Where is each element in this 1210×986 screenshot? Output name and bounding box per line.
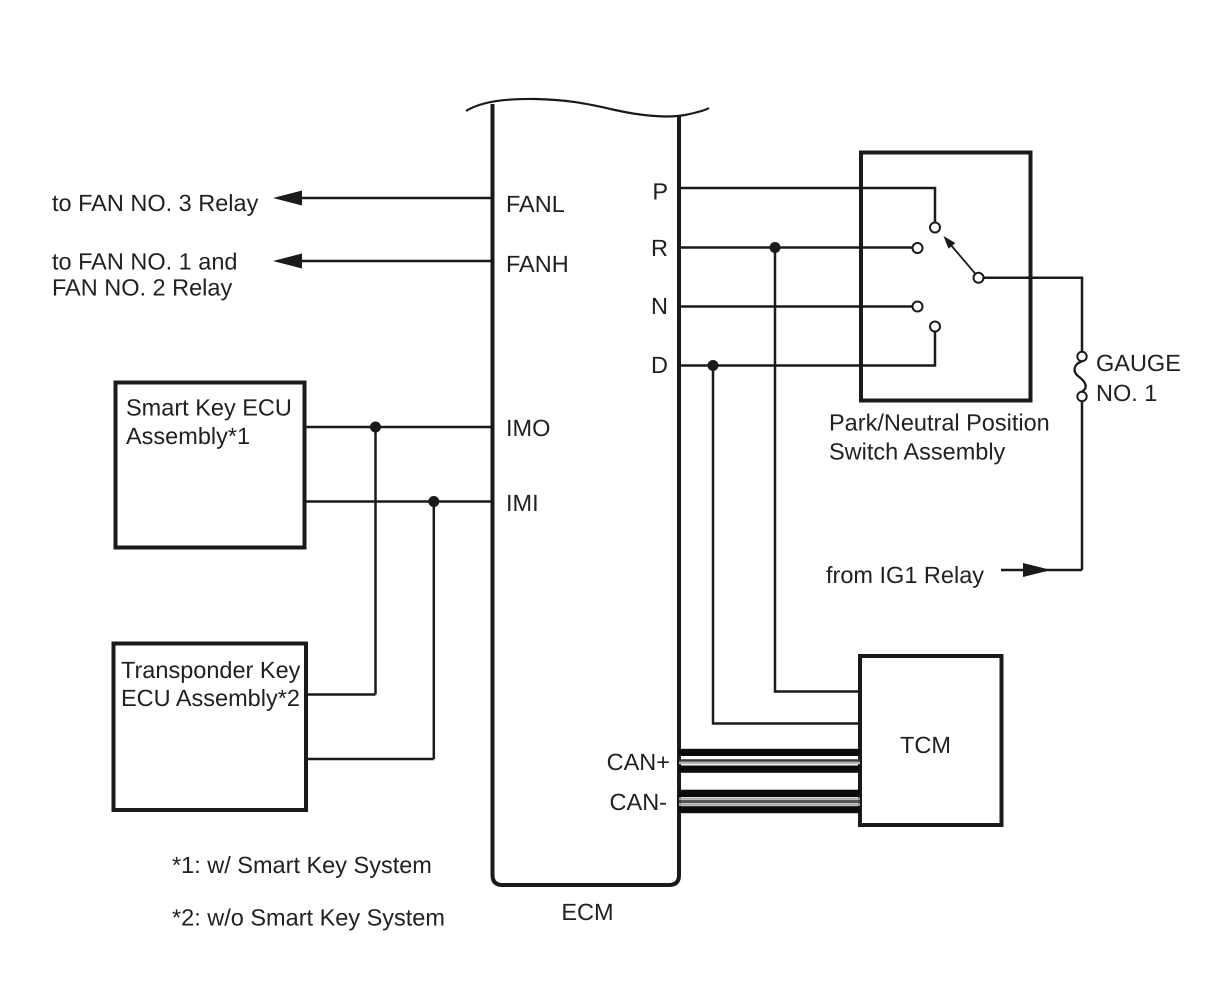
wire IMO branch vertical bbox=[374, 427, 377, 695]
wire R bbox=[679, 246, 912, 249]
svg-text:from IG1 Relay: from IG1 Relay bbox=[826, 562, 984, 588]
svg-text:Park/Neutral Position: Park/Neutral Position bbox=[829, 410, 1050, 436]
fuse GAUGE NO.1 bottom terminal bbox=[1077, 392, 1086, 401]
switch lever bbox=[950, 244, 975, 274]
svg-text:*1: w/ Smart Key System: *1: w/ Smart Key System bbox=[172, 852, 432, 878]
wire transponder lower bbox=[306, 758, 434, 761]
wire R to TCM bbox=[775, 248, 860, 692]
svg-text:Smart Key ECU: Smart Key ECU bbox=[126, 395, 292, 421]
svg-text:to FAN NO. 1 and: to FAN NO. 1 and bbox=[52, 249, 237, 275]
wire pivot to gauge bbox=[984, 278, 1082, 352]
switch pivot contact bbox=[974, 273, 984, 283]
wire from IG1 relay bbox=[1001, 569, 1082, 572]
svg-text:P: P bbox=[652, 179, 668, 205]
svg-text:IMI: IMI bbox=[506, 490, 539, 516]
Transponder Key ECU Assembly box bbox=[114, 644, 307, 811]
svg-text:*2: w/o Smart Key System: *2: w/o Smart Key System bbox=[172, 905, 445, 931]
switch contact R bbox=[913, 243, 923, 253]
wire IMI branch vertical bbox=[433, 502, 436, 760]
svg-text:R: R bbox=[651, 235, 668, 261]
fuse GAUGE NO.1 top terminal bbox=[1077, 352, 1086, 361]
svg-text:CAN-: CAN- bbox=[610, 789, 667, 815]
switch lever arrowhead bbox=[944, 236, 956, 249]
junction dot R bbox=[770, 242, 781, 253]
Park/Neutral Position Switch Assembly box bbox=[861, 153, 1031, 401]
wire N bbox=[679, 305, 912, 308]
svg-text:ECU Assembly*2: ECU Assembly*2 bbox=[121, 685, 300, 711]
switch contact P bbox=[930, 223, 940, 233]
junction dot D bbox=[708, 360, 719, 371]
svg-text:to FAN NO. 3 Relay: to FAN NO. 3 Relay bbox=[52, 190, 259, 216]
wire IMI bbox=[305, 500, 493, 503]
svg-text:N: N bbox=[651, 293, 668, 319]
wire gauge down to IG1 bbox=[1081, 402, 1084, 570]
wire FANL to FAN NO.3 relay bbox=[299, 197, 493, 200]
arrowhead from IG1 relay bbox=[1023, 563, 1051, 577]
wire transponder upper bbox=[306, 693, 376, 696]
wire IMO bbox=[305, 426, 493, 429]
wire P bbox=[679, 188, 935, 222]
junction dot IMI bbox=[428, 496, 439, 507]
junction dot IMO bbox=[370, 422, 381, 433]
svg-text:FANH: FANH bbox=[506, 251, 569, 277]
CAN+ bus bbox=[679, 749, 860, 756]
CAN- bus bbox=[679, 790, 860, 797]
svg-text:FANL: FANL bbox=[506, 191, 565, 217]
arrowhead to FAN NO.1/2 relay bbox=[273, 254, 302, 269]
ECM body outline U1 bbox=[493, 104, 680, 885]
switch contact N bbox=[913, 302, 923, 312]
fuse GAUGE NO.1 body bbox=[1075, 361, 1086, 391]
TCM box bbox=[860, 656, 1002, 825]
Smart Key ECU Assembly box bbox=[116, 383, 305, 548]
svg-text:FAN NO. 2 Relay: FAN NO. 2 Relay bbox=[52, 275, 232, 301]
svg-text:D: D bbox=[651, 352, 668, 378]
wire D to TCM bbox=[713, 366, 860, 724]
svg-text:Switch Assembly: Switch Assembly bbox=[829, 439, 1006, 465]
svg-text:TCM: TCM bbox=[900, 732, 951, 758]
svg-text:ECM: ECM bbox=[561, 899, 613, 925]
svg-text:GAUGE: GAUGE bbox=[1096, 350, 1181, 376]
wire FANH to FAN NO.1/2 relay bbox=[299, 260, 493, 263]
switch contact D bbox=[930, 322, 940, 332]
arrowhead to FAN NO.3 relay bbox=[273, 191, 302, 206]
wire D bbox=[679, 332, 935, 366]
svg-text:CAN+: CAN+ bbox=[607, 749, 670, 775]
ECM top break wavy line bbox=[466, 99, 709, 117]
svg-text:Assembly*1: Assembly*1 bbox=[126, 423, 250, 449]
svg-text:Transponder Key: Transponder Key bbox=[121, 657, 301, 683]
svg-text:NO. 1: NO. 1 bbox=[1096, 380, 1157, 406]
svg-text:IMO: IMO bbox=[506, 415, 550, 441]
